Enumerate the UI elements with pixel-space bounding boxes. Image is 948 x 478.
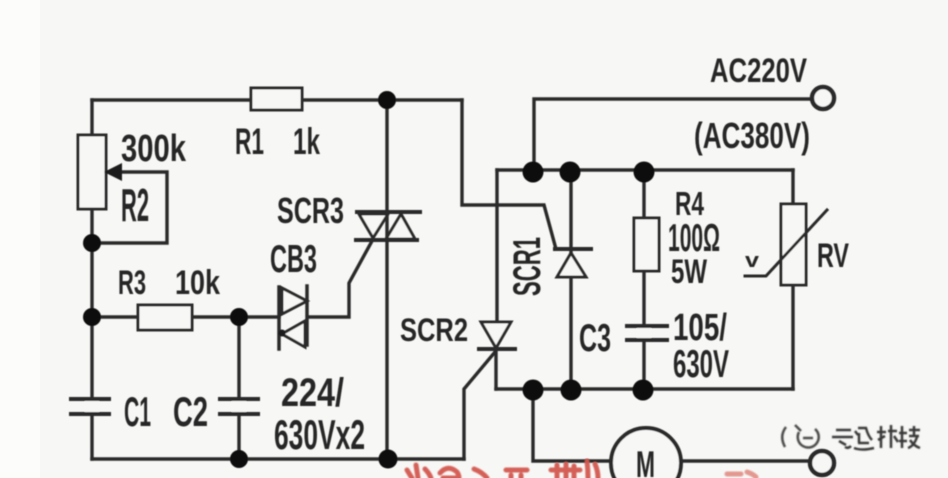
- svg-text:C3: C3: [579, 317, 611, 360]
- svg-text:M: M: [636, 444, 655, 478]
- varistor RV strike arrow: [745, 210, 827, 276]
- junction node box top left: [523, 162, 544, 183]
- svg-text:SCR3: SCR3: [277, 190, 344, 231]
- potentiometer R2 body: [78, 135, 106, 209]
- svg-text:SCR1: SCR1: [506, 237, 549, 296]
- svg-text:AC220V: AC220V: [710, 52, 807, 90]
- terminal bottom: [810, 451, 834, 475]
- wire AC line to terminal: [534, 99, 812, 170]
- capacitor C2: [220, 399, 258, 414]
- wire C2 drop: [237, 317, 240, 459]
- svg-text:(AC380V): (AC380V): [694, 115, 810, 156]
- svg-text:300k: 300k: [121, 128, 187, 170]
- svg-text:5W: 5W: [671, 253, 708, 291]
- junction node C3 bottom: [633, 380, 654, 401]
- terminal AC top: [812, 87, 834, 109]
- svg-text:10k: 10k: [175, 264, 220, 302]
- wire SCR1 branch: [569, 172, 572, 390]
- svg-text:1k: 1k: [293, 121, 320, 162]
- wire bottom rail: [92, 457, 464, 460]
- svg-text:v: v: [745, 250, 760, 272]
- wire right drop to SCR1 gate: [462, 100, 556, 249]
- svg-text:R2: R2: [121, 179, 149, 231]
- wire CB3 to SCR3 gate: [308, 241, 372, 317]
- resistor R1: [251, 88, 302, 110]
- svg-text:R1: R1: [235, 121, 264, 162]
- svg-text:630Vx2: 630Vx2: [274, 411, 365, 458]
- junction node SCR3 bottom: [379, 450, 398, 469]
- wire box right edge (RV branch): [791, 170, 794, 389]
- wire box bottom edge: [496, 387, 793, 390]
- watermark text yun xun ke ji: [832, 425, 920, 450]
- junction node motor tap: [523, 380, 544, 401]
- wire box left edge (SCR2 anode): [495, 170, 498, 322]
- junction node R3-CB3: [230, 308, 248, 326]
- resistor R4: [634, 218, 659, 271]
- thyristor SCR2: [479, 322, 515, 349]
- wire R3 branch: [92, 315, 279, 318]
- junction node R3 left: [83, 308, 101, 326]
- diac CB3: [279, 286, 308, 349]
- svg-text:630V: 630V: [673, 343, 729, 386]
- capacitor C3: [627, 326, 667, 340]
- red stamp text stubs (clipped at bottom): [407, 461, 756, 478]
- svg-text:RV: RV: [817, 237, 849, 275]
- capacitor C1: [71, 399, 109, 414]
- wire snubber box top edge: [497, 168, 793, 171]
- wire top rail: [92, 98, 462, 101]
- wire SCR2 cathode to box bottom: [494, 350, 497, 389]
- wire center vertical (SCR3 branch): [385, 100, 388, 459]
- wire SCR2 gate drop: [464, 352, 495, 459]
- wire R4 C3 branch: [642, 172, 645, 390]
- svg-text:C1: C1: [124, 388, 151, 435]
- svg-text:224/: 224/: [281, 371, 344, 415]
- junction node SCR1 bottom: [561, 380, 582, 401]
- watermark logo swoosh: [782, 425, 818, 448]
- junction node R2 bottom: [83, 234, 101, 252]
- varistor RV body: [781, 204, 806, 285]
- svg-text:R3: R3: [118, 264, 146, 302]
- motor M circle: [611, 428, 681, 478]
- junction node R1-SCR3: [378, 91, 396, 109]
- svg-text:SCR2: SCR2: [400, 312, 468, 348]
- wire motor to terminal: [682, 459, 810, 462]
- wire motor feed: [533, 390, 612, 461]
- junction node C2 bottom: [230, 450, 248, 468]
- thyristor SCR1: [555, 249, 591, 277]
- resistor R3: [138, 305, 192, 330]
- svg-text:C2: C2: [173, 388, 208, 435]
- wire left vertical rail: [90, 100, 93, 459]
- junction node R4 top: [634, 162, 655, 183]
- potentiometer R2 wiper arrow: [104, 163, 122, 181]
- wire R2 wiper loop: [92, 172, 167, 243]
- svg-text:CB3: CB3: [270, 238, 317, 281]
- junction node SCR1 top: [560, 162, 581, 183]
- triac SCR3: [356, 212, 420, 240]
